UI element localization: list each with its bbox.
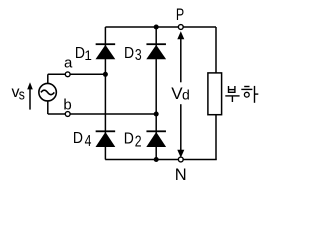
svg-text:a: a xyxy=(64,55,73,72)
svg-text:2: 2 xyxy=(135,133,142,150)
svg-text:s: s xyxy=(19,87,25,104)
svg-text:P: P xyxy=(176,6,184,24)
svg-text:N: N xyxy=(175,166,187,184)
svg-text:D: D xyxy=(73,130,83,147)
svg-text:d: d xyxy=(182,86,190,102)
svg-text:D: D xyxy=(124,130,134,147)
svg-text:3: 3 xyxy=(135,47,142,64)
svg-text:1: 1 xyxy=(84,48,92,63)
svg-text:D: D xyxy=(124,45,134,62)
svg-text:b: b xyxy=(63,97,71,114)
svg-text:4: 4 xyxy=(85,133,92,150)
